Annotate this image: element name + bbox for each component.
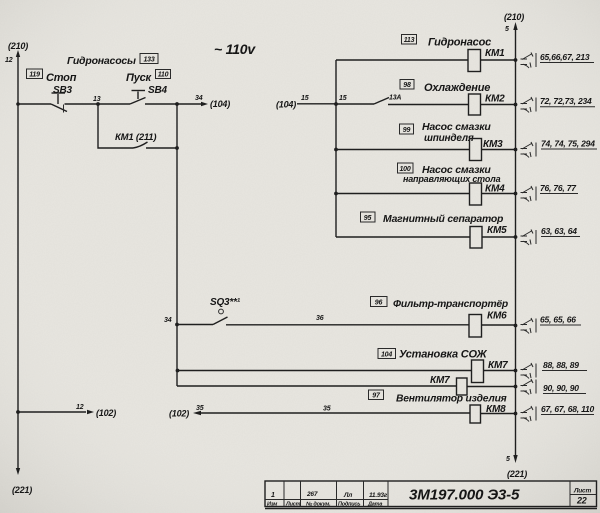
svg-text:Лл: Лл: [343, 492, 352, 499]
svg-text:Лист: Лист: [573, 488, 591, 495]
svg-text:КМ6: КМ6: [487, 311, 507, 322]
label Насос смазки направляющих стола: [403, 164, 501, 184]
box 95: [361, 212, 376, 222]
svg-text:SB4: SB4: [148, 85, 167, 96]
svg-text:Установка СОЖ: Установка СОЖ: [399, 349, 487, 361]
svg-text:Насос смазки: Насос смазки: [422, 121, 491, 133]
contact 13A: [374, 95, 401, 105]
label SB4: [148, 85, 167, 96]
svg-text:65,66,67, 213: 65,66,67, 213: [540, 52, 590, 62]
wire 15: from (104) to ladder bus: [276, 95, 336, 110]
contact refs KM7 aux: [521, 379, 587, 395]
contact refs KM4: [521, 183, 579, 202]
svg-text:(210): (210): [8, 41, 28, 51]
left bus wire (210)-(221): [16, 50, 20, 475]
box 113: [402, 35, 417, 45]
svg-text:(104): (104): [276, 100, 296, 110]
wire 36: SQ3 to coil KM6: [226, 315, 469, 325]
svg-text:133: 133: [143, 57, 154, 64]
svg-text:67, 67, 68, 110: 67, 67, 68, 110: [541, 404, 595, 414]
svg-text:12: 12: [5, 57, 13, 64]
svg-text:113: 113: [404, 37, 415, 44]
coil KM7 aux (small): [457, 378, 468, 395]
svg-text:34: 34: [164, 317, 172, 324]
svg-text:КМ4: КМ4: [485, 184, 505, 195]
contact refs KM6: [521, 315, 582, 334]
svg-text:76, 76, 77: 76, 76, 77: [540, 183, 577, 193]
svg-text:Гидронасос: Гидронасос: [428, 37, 491, 49]
svg-text:72, 72,73, 234: 72, 72,73, 234: [540, 96, 592, 106]
switch SQ3 (limit switch): [213, 309, 228, 324]
wire: SB4 to node 34: [145, 103, 177, 105]
node 34: [175, 95, 203, 106]
box 100: [398, 163, 414, 173]
ladder left bus: [335, 60, 337, 237]
svg-text:15: 15: [301, 95, 309, 102]
coil KM3: [470, 139, 504, 161]
wire: KM1 contact to feed line: [146, 146, 179, 150]
node (210) left label: [8, 41, 28, 51]
svg-text:~ 110v: ~ 110v: [214, 41, 256, 57]
svg-text:Дата: Дата: [367, 502, 382, 508]
coil KM1: [468, 48, 505, 72]
svg-text:35: 35: [323, 406, 331, 413]
coil KM6: [469, 311, 507, 338]
label Стоп: [46, 72, 77, 84]
wire: KM1 row: [336, 58, 517, 62]
svg-text:13А: 13А: [389, 95, 401, 102]
wire: KM2 row from bus: [334, 95, 374, 106]
svg-text:(104): (104): [210, 99, 230, 109]
svg-text:90, 90, 90: 90, 90, 90: [543, 383, 579, 393]
title: document number: [409, 487, 520, 504]
pushbutton SB4 (NO start): [130, 91, 146, 105]
svg-text:направляющих стола: направляющих стола: [403, 174, 501, 184]
svg-text:100: 100: [399, 166, 410, 173]
wire: KM7 aux to bus: [467, 385, 517, 389]
svg-text:(210): (210): [504, 12, 524, 22]
wire 35: to coil KM8: [196, 405, 470, 413]
label Гидронасос: [428, 37, 491, 49]
contact refs KM3: [521, 139, 598, 158]
node (104) label left: [210, 99, 230, 109]
contact refs KM8: [521, 404, 595, 422]
wire: KM8 coil to bus: [481, 412, 518, 416]
node 34 junction on feed line: [164, 317, 179, 326]
wire: feed corner to KM7 contact row: [177, 385, 457, 387]
label Охлаждение: [424, 82, 490, 94]
svg-text:36: 36: [316, 315, 324, 322]
svg-text:КМ1 (211): КМ1 (211): [115, 132, 156, 143]
box 96: [371, 297, 388, 307]
coil KM2: [469, 94, 506, 116]
svg-text:5: 5: [505, 26, 509, 33]
svg-text:КМ3: КМ3: [483, 139, 503, 150]
label Установка СОЖ: [399, 349, 487, 361]
contact refs KM7: [521, 360, 588, 379]
svg-text:98: 98: [403, 82, 411, 89]
title block: [265, 481, 597, 509]
label SB3: [53, 85, 72, 96]
wire: feed to SQ3: [177, 324, 213, 326]
right bus wire 5: [505, 22, 518, 463]
wire 12 label top-left: [5, 57, 13, 64]
wire: KM6 coil to bus: [482, 324, 518, 328]
contact refs KM1: [521, 52, 595, 68]
svg-text:№ докум.: № докум.: [306, 502, 331, 508]
svg-text:15: 15: [339, 95, 347, 102]
svg-text:(102): (102): [96, 408, 116, 418]
box 110: [156, 70, 171, 79]
svg-text:96: 96: [375, 300, 383, 307]
contact refs KM5: [521, 226, 581, 245]
node (221) right label: [507, 469, 527, 479]
svg-text:Гидронасосы: Гидронасосы: [67, 55, 136, 67]
wire: row 1 from left bus to SB3: [16, 102, 51, 106]
node (210) right label: [504, 12, 524, 22]
svg-text:65, 65, 66: 65, 65, 66: [540, 315, 576, 325]
pushbutton SB3 (NC stop): [51, 93, 67, 113]
label Гидронасосы: [67, 55, 136, 67]
svg-text:110: 110: [158, 72, 169, 79]
wire: node 13 to SB4: [98, 103, 130, 105]
title: sheet no: [573, 488, 591, 506]
box 133: [140, 54, 158, 64]
svg-text:КМ7: КМ7: [488, 360, 508, 371]
node (102) bottom left with wire 12: [16, 404, 116, 418]
svg-text:74, 74, 75, 294: 74, 74, 75, 294: [541, 139, 595, 149]
svg-text:SQ3**¹: SQ3**¹: [210, 297, 241, 308]
wire: node 34 to (104) arrow: [177, 102, 208, 106]
svg-text:34: 34: [195, 95, 203, 102]
svg-text:Магнитный сепаратор: Магнитный сепаратор: [383, 214, 504, 225]
label Пуск: [126, 72, 153, 84]
svg-text:Лист: Лист: [285, 502, 301, 508]
svg-text:63, 63, 64: 63, 63, 64: [541, 226, 577, 236]
box 104: [378, 349, 396, 359]
svg-text:Вентилятор изделия: Вентилятор изделия: [396, 394, 507, 405]
label KM7 aux: [430, 375, 450, 386]
svg-text:Охлаждение: Охлаждение: [424, 82, 490, 94]
contact refs KM2: [521, 96, 596, 113]
wire: 13A to coil KM2: [388, 103, 517, 107]
node (221) left label: [12, 485, 32, 495]
wire: KM5 row: [336, 235, 517, 239]
box 99: [400, 124, 414, 134]
svg-text:35: 35: [196, 405, 204, 412]
svg-text:(221): (221): [12, 485, 32, 495]
node (102) label for wire 35: [169, 409, 201, 419]
svg-text:95: 95: [364, 215, 372, 222]
wire: KM7 coil to bus: [484, 369, 518, 373]
coil KM5: [470, 225, 507, 248]
label ~110v: [214, 41, 256, 57]
svg-text:Фильтр-транспортёр: Фильтр-транспортёр: [393, 299, 508, 310]
svg-text:SB3: SB3: [53, 85, 72, 96]
wire: KM1 hold branch down from node 13: [98, 104, 133, 148]
svg-text:119: 119: [29, 72, 40, 79]
label Фильтр-транспортёр: [393, 299, 508, 310]
svg-text:шпинделя: шпинделя: [424, 133, 474, 144]
box 98: [400, 80, 414, 90]
svg-text:3М197.000 Э3-5: 3М197.000 Э3-5: [409, 487, 520, 504]
label Магнитный сепаратор: [383, 214, 504, 225]
svg-text:13: 13: [93, 96, 101, 103]
svg-text:КМ5: КМ5: [487, 225, 507, 236]
svg-text:Подпись: Подпись: [338, 502, 360, 508]
label KM1 (211): [115, 132, 156, 143]
svg-text:88, 88, 89: 88, 88, 89: [543, 360, 579, 370]
node 13: [93, 96, 101, 106]
title block entries row: [271, 491, 388, 499]
svg-text:104: 104: [381, 352, 392, 359]
contact KM1 (NO, self-hold): [133, 142, 148, 148]
box 119: [27, 69, 43, 79]
svg-text:22: 22: [576, 496, 587, 506]
label Насос смазки шпинделя: [422, 121, 491, 144]
svg-text:11.93г: 11.93г: [369, 492, 388, 499]
svg-text:Пуск: Пуск: [126, 72, 153, 84]
svg-text:12: 12: [76, 404, 84, 411]
svg-text:КМ2: КМ2: [485, 94, 505, 105]
wire: KM3 row: [334, 148, 517, 152]
coil KM8: [470, 404, 506, 423]
svg-text:Изм: Изм: [267, 502, 277, 508]
label SQ3**1: [210, 297, 241, 308]
svg-text:267: 267: [306, 491, 318, 498]
svg-text:КМ8: КМ8: [486, 404, 506, 415]
svg-text:КМ1: КМ1: [485, 48, 505, 59]
svg-text:97: 97: [372, 393, 381, 400]
wire: vertical feed line from node 34 down: [176, 104, 178, 386]
svg-text:КМ7: КМ7: [430, 375, 450, 386]
box 97: [369, 390, 384, 400]
coil KM7: [472, 360, 509, 383]
wire: SB3 to node 13: [65, 103, 99, 105]
svg-text:(221): (221): [507, 469, 527, 479]
wire: feed junction to KM7 row: [176, 369, 472, 373]
label Вентилятор изделия: [396, 394, 507, 405]
svg-text:Стоп: Стоп: [46, 72, 77, 84]
svg-text:(102): (102): [169, 409, 189, 419]
title block column labels: [267, 502, 382, 508]
svg-text:99: 99: [403, 127, 411, 134]
coil KM4: [470, 183, 506, 205]
wire: KM4 row: [334, 192, 517, 196]
svg-text:5: 5: [506, 456, 510, 463]
svg-text:1: 1: [271, 492, 275, 499]
